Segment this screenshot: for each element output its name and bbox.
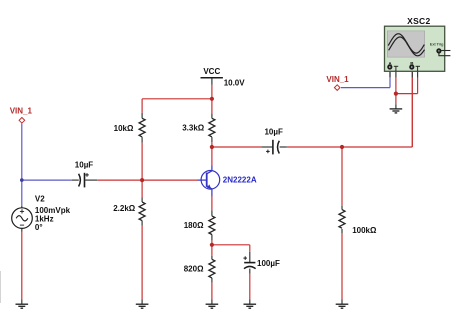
svg-text:10.0V: 10.0V [224, 78, 246, 87]
svg-text:10µF: 10µF [75, 161, 94, 170]
svg-text:VIN_1: VIN_1 [10, 107, 33, 116]
svg-text:3.3kΩ: 3.3kΩ [182, 123, 205, 132]
svg-text:V2: V2 [35, 194, 45, 203]
svg-text:2.2kΩ: 2.2kΩ [113, 204, 136, 213]
svg-text:0°: 0° [35, 223, 43, 232]
svg-text:2N2222A: 2N2222A [223, 175, 257, 184]
svg-text:VIN_1: VIN_1 [326, 75, 349, 84]
svg-text:10kΩ: 10kΩ [114, 124, 134, 133]
svg-text:180Ω: 180Ω [184, 221, 204, 230]
svg-text:Ext Trig: Ext Trig [430, 41, 444, 46]
svg-text:100kΩ: 100kΩ [352, 226, 377, 235]
svg-text:10µF: 10µF [264, 128, 283, 137]
svg-text:VCC: VCC [203, 67, 220, 76]
svg-text:XSC2: XSC2 [407, 16, 430, 26]
svg-text:100µF: 100µF [257, 259, 280, 268]
svg-text:820Ω: 820Ω [184, 264, 204, 273]
